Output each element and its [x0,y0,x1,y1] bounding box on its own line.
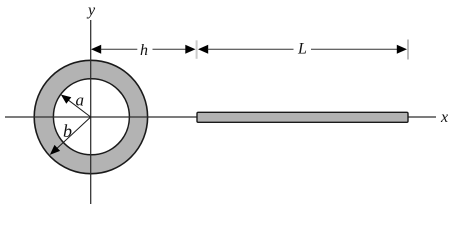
dimension h: right arrowhead [185,45,195,54]
dimension h: left line segment [101,48,138,50]
arrow b (center to outer circle) [50,117,91,155]
svg-text:y: y [86,2,96,19]
svg-text:L: L [297,41,307,58]
dimension L: right line segment [311,48,398,50]
svg-text:x: x [440,109,448,126]
dimension h: left arrowhead [91,45,101,54]
x-axis [5,116,436,118]
rod (grey bar on x-axis) [197,112,408,122]
arrow a (center to inner circle) [61,95,91,118]
svg-text:a: a [76,91,85,110]
dimension L: left line segment [208,48,294,50]
extension tick at rod right end [407,40,409,60]
dimension h: right line segment [153,48,187,50]
dimension L: right arrowhead [397,45,407,54]
dimension L: left arrowhead [198,45,208,54]
annulus ring (grey washer, inner radius a, outer radius b) [34,60,147,173]
y-axis [90,20,92,204]
svg-text:h: h [140,42,148,59]
svg-text:b: b [63,121,72,141]
extension tick at rod left end [196,40,198,59]
